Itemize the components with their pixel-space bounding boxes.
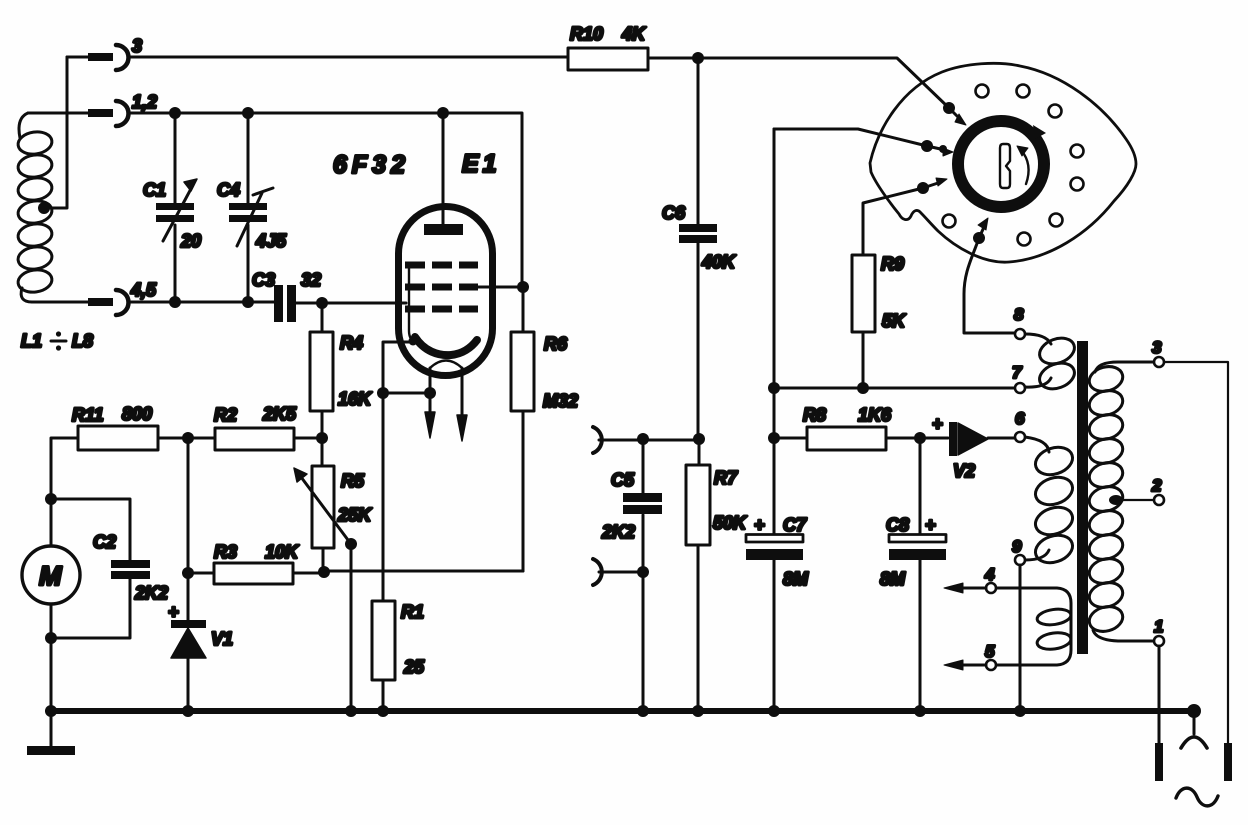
svg-text:+: + [932, 414, 943, 434]
resistor R3 [188, 542, 324, 584]
connector 1,2 [28, 92, 157, 126]
cathode [415, 337, 477, 355]
bus nodes [45, 705, 1026, 717]
node M bottom [45, 632, 57, 644]
anode [442, 113, 445, 224]
ground symbol [27, 711, 75, 755]
svg-text:+: + [925, 515, 936, 535]
terminal 8 [1014, 305, 1025, 339]
grid g3 dashes [405, 262, 478, 269]
svg-text:M32: M32 [543, 391, 578, 411]
svg-text:5K: 5K [882, 311, 907, 331]
capacitor C5 [601, 439, 662, 711]
svg-text:R11: R11 [72, 405, 104, 425]
wire R2 node to V1 [187, 438, 190, 622]
winding 4-5 [996, 588, 1072, 665]
svg-text:25K: 25K [337, 505, 373, 525]
svg-text:8M: 8M [880, 569, 906, 589]
mains prong right [1224, 743, 1232, 781]
wire R10 to eye pin [648, 58, 949, 108]
potentiometer R5 [294, 438, 373, 711]
winding 6-9 [1025, 437, 1076, 567]
svg-text:R1: R1 [401, 602, 424, 622]
node grid/R4 [316, 297, 328, 309]
svg-text:8: 8 [1014, 305, 1024, 324]
svg-text:1K6: 1K6 [858, 405, 892, 425]
svg-text:1,2: 1,2 [132, 92, 157, 112]
node R8 left [768, 432, 780, 444]
svg-text:8M: 8M [783, 569, 809, 589]
connector arc bottom [593, 559, 602, 585]
wire top line to R10 [128, 56, 568, 59]
svg-text:R2: R2 [214, 405, 237, 425]
node anode [437, 107, 449, 119]
envelope [399, 207, 493, 376]
trimmer C4 [217, 113, 287, 302]
terminal 5 [944, 642, 996, 670]
svg-text:4,5: 4,5 [130, 280, 157, 300]
eye pin 4 [964, 218, 1014, 333]
node C6/R7 [693, 433, 705, 445]
connector arc top [593, 427, 602, 453]
svg-text:+: + [754, 515, 765, 535]
wire arc to C5 [599, 439, 699, 442]
capacitor C6 [662, 58, 737, 438]
connector 3 [67, 36, 142, 70]
svg-text:R4: R4 [340, 333, 363, 353]
capacitor C8 [880, 438, 946, 711]
wire eye grid branch [773, 129, 776, 438]
resistor R6 [511, 287, 578, 571]
grid g1 dashes [405, 306, 478, 313]
svg-text:2K2: 2K2 [134, 583, 168, 603]
node C4 bottom [242, 296, 254, 308]
svg-text:V2: V2 [953, 461, 975, 481]
suppressor to cathode internal wire [409, 267, 418, 344]
heater pin arrows [425, 368, 467, 441]
mains connector [1181, 704, 1207, 748]
svg-text:R5: R5 [341, 471, 365, 491]
svg-text:7: 7 [1012, 363, 1023, 382]
svg-text:3: 3 [132, 36, 142, 56]
mains prong left [1155, 743, 1163, 781]
grid g2 dashes [405, 284, 478, 291]
svg-text:4J5: 4J5 [255, 231, 287, 251]
svg-text:R9: R9 [881, 254, 904, 274]
svg-text:M: M [39, 561, 62, 591]
svg-text:4: 4 [984, 565, 995, 584]
svg-text:16K: 16K [338, 389, 373, 409]
eye hole pins [976, 85, 989, 98]
svg-text:3: 3 [1152, 338, 1162, 357]
diode V2 [932, 414, 1015, 481]
svg-text:20: 20 [180, 231, 201, 251]
terminal 1 [1154, 617, 1164, 743]
svg-text:10K: 10K [265, 542, 300, 562]
diode V1 [168, 602, 233, 711]
svg-text:R8: R8 [803, 405, 826, 425]
node R10/C6 [692, 52, 704, 64]
connector 4,5 [32, 280, 157, 315]
node cathode [377, 387, 389, 399]
svg-text:C6: C6 [662, 203, 686, 223]
node R9 bottom [857, 382, 869, 394]
node R2/R4/R5 [316, 432, 328, 444]
wire 1,2 rail [128, 112, 443, 115]
svg-text:L8: L8 [72, 331, 93, 351]
motor M [22, 499, 80, 711]
node M top [45, 493, 57, 505]
capacitor C3 [252, 270, 321, 322]
terminal 3 [1152, 338, 1228, 743]
eye ring [958, 121, 1044, 207]
eye ring mark [1033, 125, 1046, 139]
wire cathode to heater pin [383, 392, 430, 395]
wire R6 bottom to R3 node [324, 570, 523, 573]
coil tap node [38, 57, 67, 214]
svg-text:R3: R3 [214, 542, 237, 562]
svg-text:C7: C7 [783, 515, 807, 535]
capacitor C7 [746, 438, 809, 711]
svg-text:L1: L1 [21, 331, 42, 351]
svg-text:C4: C4 [217, 180, 240, 200]
tube E1 6F32 [333, 113, 501, 376]
node C1 bottom [169, 296, 181, 308]
terminal 6 [1015, 409, 1025, 442]
eye rotation arrow [1021, 150, 1029, 184]
terminal 9 [1012, 537, 1025, 711]
primary winding [1086, 362, 1154, 641]
resistor R7 [686, 439, 748, 711]
svg-text:R6: R6 [544, 334, 568, 354]
node C8 top [914, 432, 926, 444]
transformer core [1077, 341, 1088, 654]
svg-text:E1: E1 [462, 150, 501, 178]
terminal 4 [944, 565, 996, 593]
eye keyway [1000, 144, 1010, 188]
node R9 rail [768, 382, 780, 394]
wire anode rail to screen branch [443, 113, 522, 287]
winding 8-7 [1025, 334, 1078, 394]
svg-text:C3: C3 [252, 270, 275, 290]
svg-text:6: 6 [1015, 409, 1025, 428]
svg-text:V1: V1 [211, 629, 233, 649]
capacitor C2 [51, 499, 168, 638]
wire cathode lead [383, 342, 414, 601]
svg-text:9: 9 [1012, 537, 1022, 556]
resistor R10 [568, 24, 648, 70]
svg-text:1: 1 [1154, 617, 1163, 636]
wire rail to terminal 7 [774, 387, 1014, 390]
node C4 top [242, 107, 254, 119]
svg-text:6F32: 6F32 [333, 151, 410, 179]
node heater pin [424, 387, 436, 399]
eye pin 3 [863, 178, 947, 255]
svg-text:+: + [168, 602, 179, 622]
node R11/R2 [182, 432, 194, 444]
svg-text:C1: C1 [143, 180, 166, 200]
resistor R2 [214, 404, 322, 450]
svg-text:50K: 50K [713, 513, 748, 533]
svg-text:2K2: 2K2 [601, 522, 635, 542]
svg-text:R10: R10 [570, 24, 603, 44]
svg-text:C2: C2 [93, 532, 116, 552]
svg-text:C5: C5 [611, 470, 635, 490]
terminal 2 tap [1109, 476, 1164, 505]
eye pin 1 [943, 102, 966, 125]
svg-text:5: 5 [985, 642, 995, 661]
node C5 top [637, 433, 649, 445]
svg-text:4K: 4K [621, 24, 647, 44]
svg-text:2K5: 2K5 [262, 404, 297, 424]
coil L1-L8 [17, 113, 93, 351]
svg-text:32: 32 [301, 270, 321, 290]
wire 4,5 rail [128, 301, 274, 304]
svg-text:C8: C8 [886, 515, 909, 535]
node screen/R6 [517, 281, 529, 293]
node C1 top [169, 107, 181, 119]
resistor R4 [310, 303, 373, 438]
svg-text:R7: R7 [714, 468, 738, 488]
node R3 right [318, 566, 330, 578]
terminal 7 [1012, 363, 1025, 393]
eye socket [870, 63, 1136, 262]
wire screen grid [478, 286, 522, 289]
svg-text:25: 25 [403, 657, 425, 677]
node R3 left [182, 567, 194, 579]
svg-text:40K: 40K [701, 252, 737, 272]
resistor R8 [774, 405, 948, 450]
resistor R11 [51, 404, 215, 499]
node C5 bottom [637, 566, 649, 578]
resistor R9 [852, 254, 907, 387]
svg-text:800: 800 [122, 404, 152, 424]
wire arc to C5 line [599, 571, 643, 574]
resistor R1 [372, 601, 425, 711]
AC symbol [1176, 788, 1218, 806]
ground bus [48, 708, 1194, 714]
eye pin 2 [774, 129, 953, 156]
capacitor C1 [143, 113, 201, 302]
svg-text:2: 2 [1151, 476, 1162, 495]
heater [430, 361, 462, 369]
wire C3 to grid [296, 302, 406, 305]
